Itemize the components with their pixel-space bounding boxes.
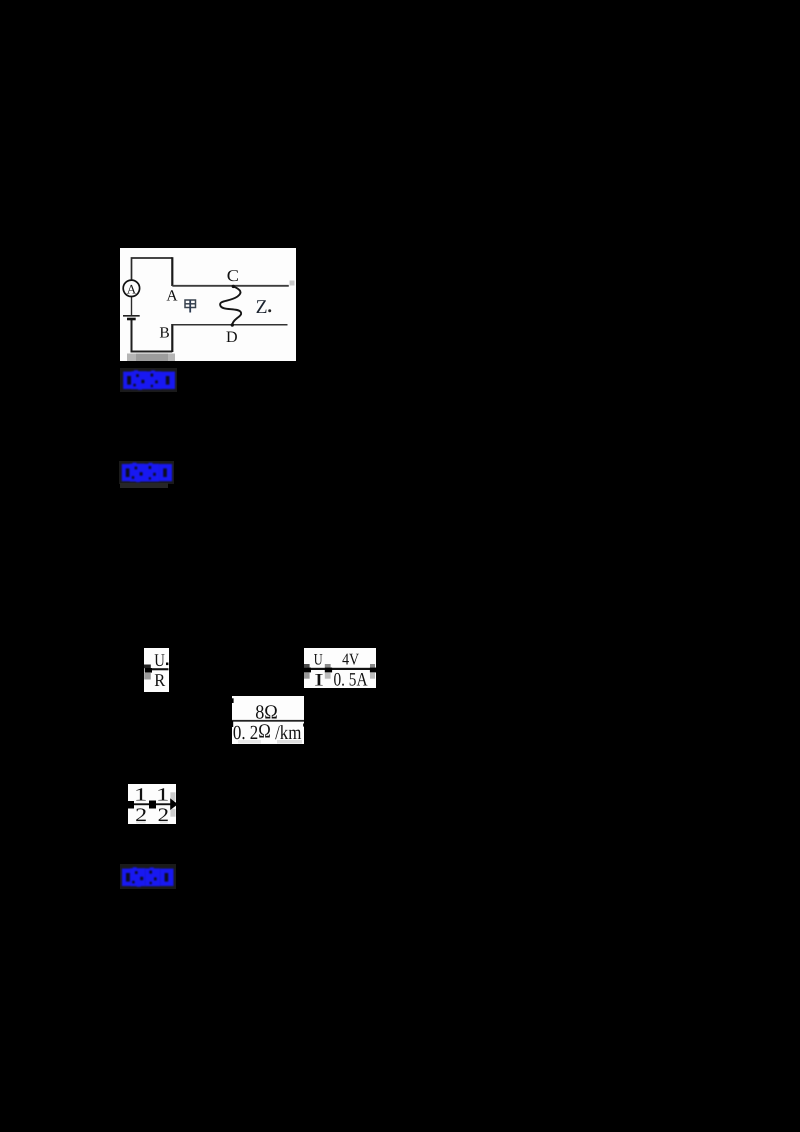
- svg-text:D: D: [226, 329, 238, 346]
- svg-text:Z: Z: [256, 297, 268, 318]
- svg-text:1: 1: [156, 785, 170, 805]
- svg-text:0. 5A: 0. 5A: [334, 670, 368, 688]
- svg-text:R: R: [154, 670, 165, 690]
- svg-text:C: C: [227, 266, 239, 285]
- svg-text:4V: 4V: [342, 650, 359, 669]
- svg-text:A: A: [166, 288, 178, 305]
- svg-text:A: A: [127, 281, 137, 296]
- svg-text:B: B: [159, 325, 169, 342]
- svg-text:2: 2: [158, 804, 169, 824]
- svg-text:2: 2: [135, 804, 147, 824]
- svg-text:0. 2Ω /km: 0. 2Ω /km: [233, 720, 302, 744]
- svg-text:1: 1: [134, 785, 148, 805]
- svg-text:I: I: [314, 669, 324, 688]
- svg-text:U: U: [314, 652, 323, 669]
- svg-text:U: U: [154, 650, 165, 670]
